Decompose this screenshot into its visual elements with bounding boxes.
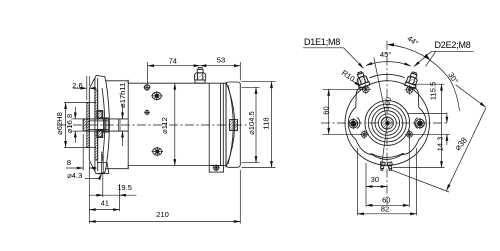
dim 82 [357, 148, 416, 215]
svg-text:74: 74 [169, 57, 177, 66]
shaft stub [83, 119, 89, 131]
through bolt screw lower [152, 147, 164, 157]
stud upper-right [405, 71, 420, 89]
svg-text:115.5: 115.5 [429, 82, 438, 100]
bottom terminal ray [391, 170, 449, 192]
bracket bell ribs [102, 81, 109, 169]
dim 118 [242, 82, 276, 168]
center rings [365, 101, 410, 146]
drive end bracket outline [89, 76, 128, 174]
stud upper-left [354, 70, 370, 88]
dim phi16.8 [73, 107, 85, 143]
phi100 line [374, 58, 388, 124]
end shield rim [226, 82, 240, 167]
bracket web section [95, 78, 98, 171]
foot screw [213, 165, 220, 171]
small screw mid [144, 110, 150, 116]
flange hole lower-right [405, 130, 414, 139]
flange outline [348, 74, 426, 159]
dim 41 [89, 184, 119, 211]
svg-text:60: 60 [382, 196, 390, 205]
svg-text:D1E1;M8: D1E1;M8 [304, 37, 340, 47]
through bolt screw upper [151, 91, 163, 101]
dim 210 [89, 162, 240, 224]
svg-text:53: 53 [217, 55, 225, 64]
body circle [345, 81, 430, 166]
end cap arcs [226, 83, 234, 166]
dim 30 bottom [366, 163, 387, 190]
svg-text:118: 118 [261, 117, 270, 129]
dim phi17h11 [122, 104, 124, 146]
svg-text:8: 8 [67, 158, 71, 167]
svg-text:14.3: 14.3 [436, 137, 445, 152]
svg-text:⌀112: ⌀112 [160, 117, 169, 134]
end cap circle arc [372, 153, 404, 157]
svg-text:30: 30 [371, 175, 379, 184]
dim 2.6 [73, 76, 97, 100]
leader D1E1 [303, 48, 364, 69]
dim 74 / 53 chain [148, 62, 241, 84]
bracket face plate [87, 103, 90, 148]
dim phi112 [174, 83, 176, 165]
30 deg ray [456, 85, 486, 107]
leader phi4.3 [85, 174, 102, 179]
line to bottom stud [382, 123, 388, 166]
svg-text:D2E2;M8: D2E2;M8 [435, 40, 471, 50]
drain hole section [102, 152, 104, 175]
motor body (yoke) [128, 80, 226, 170]
bracket lug [97, 163, 109, 174]
dim phi62H8 [64, 103, 96, 148]
svg-text:⌀62H8: ⌀62H8 [55, 112, 64, 135]
side hole left [349, 118, 358, 130]
dim 14.3 [408, 113, 450, 145]
shaft [83, 119, 128, 131]
svg-text:210: 210 [156, 210, 169, 219]
bottom stud left [379, 162, 385, 171]
dim 60 left [323, 89, 362, 134]
bearing seal [104, 118, 109, 132]
45 degree arc [366, 62, 411, 66]
right stud ray [426, 51, 436, 66]
side hole boss arcs [357, 118, 360, 129]
mounting foot [209, 166, 223, 173]
svg-text:2.6: 2.6 [72, 81, 83, 90]
svg-text:⌀16.8: ⌀16.8 [65, 114, 74, 133]
svg-text:45°: 45° [380, 50, 391, 59]
flange hole lower-left [360, 130, 369, 139]
phi38 dimension chord [447, 108, 487, 191]
svg-text:⌀4.3: ⌀4.3 [67, 171, 82, 180]
44/30 degree arc [387, 43, 460, 111]
svg-text:19.5: 19.5 [117, 183, 132, 192]
leader D2E2 [414, 51, 474, 66]
dim 19.5 [89, 175, 136, 198]
vertical centerline [386, 41, 388, 206]
terminal stud M8 on top [195, 68, 206, 84]
dim 115.5 [393, 84, 445, 167]
bottom stud right [387, 162, 393, 171]
bearing balls [97, 111, 103, 138]
flange hole upper-left [361, 84, 371, 94]
svg-text:82: 82 [381, 205, 389, 214]
dim 8 [66, 134, 97, 171]
axis centerline [57, 124, 247, 126]
svg-text:41: 41 [101, 198, 109, 207]
end cap hub [230, 120, 238, 131]
svg-text:⌀17h11: ⌀17h11 [118, 83, 127, 108]
small screw on body top [144, 84, 151, 91]
svg-text:⌀104.5: ⌀104.5 [247, 111, 256, 135]
svg-text:60: 60 [321, 106, 330, 114]
dim phi104.5 [242, 87, 260, 162]
side hole right [416, 118, 425, 130]
dim 60 bottom [366, 138, 409, 207]
flange hole upper-right [405, 85, 415, 95]
horizontal centerline [321, 122, 449, 124]
leader R10 [352, 81, 361, 87]
